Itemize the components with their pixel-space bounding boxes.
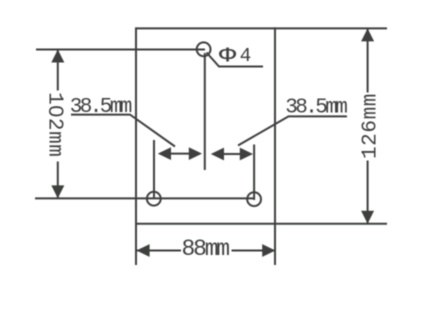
dimension line 88mm right shaft bbox=[232, 250, 275, 252]
extension line bottom holes center bbox=[35, 197, 255, 199]
arrowhead 126mm up bbox=[361, 28, 374, 41]
leader line label phi4 bbox=[207, 53, 264, 67]
arrowhead 102mm up bbox=[51, 50, 64, 63]
dimension line 126mm upper segment bbox=[367, 28, 369, 92]
dimension line 88mm left shaft bbox=[137, 250, 181, 252]
svg-text:4: 4 bbox=[240, 45, 252, 67]
label phi4 symbol bbox=[219, 44, 237, 68]
svg-text:Φ: Φ bbox=[219, 44, 237, 68]
dimension line 102mm lower segment bbox=[57, 162, 59, 199]
arrowhead 38.5mm right-left bbox=[211, 148, 224, 161]
plate right edge bbox=[274, 27, 276, 265]
dimension line 126mm lower segment bbox=[367, 161, 369, 224]
svg-text:38.5mm: 38.5mm bbox=[285, 97, 347, 120]
extension line left hole bbox=[153, 140, 155, 199]
leader line label 38.5mm left bbox=[71, 115, 175, 147]
arrowhead 38.5mm left-right bbox=[189, 147, 202, 160]
mounting hole bottom-right bbox=[247, 192, 261, 206]
extension line right hole bbox=[253, 145, 255, 201]
svg-text:38.5mm: 38.5mm bbox=[70, 96, 132, 119]
svg-text:102mm: 102mm bbox=[43, 92, 69, 157]
centre line from top hole bbox=[204, 53, 206, 170]
dimension line 102mm upper segment bbox=[57, 50, 59, 91]
plate left edge bbox=[135, 27, 137, 265]
hole phi4 top bbox=[197, 42, 211, 56]
arrowhead 38.5mm right-right bbox=[240, 148, 253, 161]
dimension line 38.5mm right shaft bbox=[213, 153, 251, 155]
svg-text:88mm: 88mm bbox=[182, 236, 230, 262]
dimension line 38.5mm left shaft bbox=[160, 153, 200, 155]
extension line top hole center bbox=[36, 49, 205, 51]
plate top edge bbox=[136, 27, 387, 29]
svg-text:126mm: 126mm bbox=[360, 93, 383, 159]
plate bottom edge bbox=[135, 223, 387, 225]
arrowhead 126mm down bbox=[361, 211, 374, 224]
arrowhead 102mm down bbox=[51, 185, 64, 198]
mounting hole bottom-left bbox=[147, 192, 161, 206]
arrowhead 88mm left bbox=[136, 244, 149, 257]
leader line label 38.5mm right bbox=[238, 116, 347, 145]
arrowhead 38.5mm left-left bbox=[158, 147, 171, 160]
arrowhead 88mm right bbox=[262, 244, 275, 257]
